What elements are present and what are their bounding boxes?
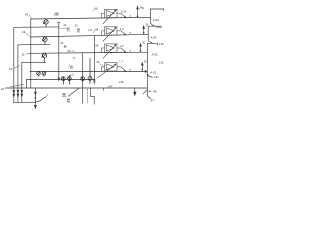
wire bottom-center vertical [82,88,84,104]
arrowhead U3 diag [114,44,116,46]
wire Q5 vertical [34,88,36,107]
arrowhead U3 output [124,51,126,53]
amplifier U1 [102,9,127,24]
wire row3 main [30,52,148,53]
svg-text:10: 10 [1,87,5,91]
output arrow row1 [137,6,139,17]
wire column x82.7 [82,53,84,88]
contact K4a under wire4 [37,72,41,77]
svg-text:RTL: RTL [67,31,71,33]
svg-text:67: 67 [151,99,155,103]
wire row4 lower left vertical [26,80,28,89]
svg-text:1-45: 1-45 [119,81,124,84]
label 14 + pointer [25,13,32,19]
svg-text:13: 13 [22,30,26,34]
label 11 + pointer [22,52,30,56]
wire row2 main [30,34,148,37]
label 90 RTL row1 [54,11,59,17]
svg-text:RTL: RTL [77,32,81,34]
arrowhead U2 diag [114,27,116,29]
label 90 row3 [68,50,76,53]
node stub below bus x103.5 [103,88,105,91]
wire row3 lower [22,61,46,63]
wire row1 hook below corner [150,17,154,25]
amplifier U2 [102,27,127,42]
wire bottom bus [6,87,148,89]
svg-text:1-53: 1-53 [159,43,164,46]
svg-text:1-24: 1-24 [121,11,126,14]
label 67 [150,98,154,103]
wire row1 main [31,17,151,19]
wire row1 lower left vertical [13,27,15,102]
wire stub x134.8 below bus [134,88,136,92]
arrowhead U2 output [124,33,126,35]
label 90 RTL bottom2 [67,98,72,104]
svg-text:RTL: RTL [56,15,60,17]
output arrow row3 [140,44,142,53]
svg-text:11: 11 [22,52,25,56]
svg-text:1-51: 1-51 [154,76,159,79]
svg-text:A-51: A-51 [150,71,156,75]
svg-text:1-47: 1-47 [108,85,113,88]
arrowhead U1 diag [114,10,116,12]
svg-text:A-52: A-52 [152,53,158,57]
svg-text:RTL: RTL [72,51,76,53]
transistor Q5 collector arc [36,97,45,102]
contact K3 under wire3 [42,53,47,62]
svg-text:RTL: RTL [70,68,74,70]
wire row3 lower left vertical [21,62,23,102]
svg-text:A-54: A-54 [153,18,159,22]
svg-text:1-54: 1-54 [156,26,161,29]
wire column x94.6 [94,36,96,85]
amplifier U4 [97,63,126,78]
svg-text:12: 12 [9,67,13,71]
wire column x58.8 [58,22,60,78]
svg-text:1-52: 1-52 [159,62,164,65]
transistor Q7 diagonal into bus [143,90,147,94]
node row3 right corner jog [147,44,157,53]
wire row4 lower [27,79,95,81]
label 90 row2 [59,27,70,33]
label 13 + pointer [22,30,30,36]
node tick top of column [58,21,60,23]
label -45 [148,89,157,93]
svg-text:RTL: RTL [93,82,97,84]
arrow column58 down [58,78,60,81]
label 90 row4 [68,65,73,70]
svg-text:-45: -45 [153,89,157,93]
wire bottom-center step [90,88,94,104]
node row2 right corner jog [148,26,161,34]
output arrow row4 [141,63,143,72]
wire left vertical bus [30,19,32,88]
wire row4 main [30,71,145,73]
amplifier U3 [102,44,127,59]
node Q5 dot [35,97,37,99]
label 12 + pointer [9,65,20,71]
transistor Q6 diagonal [68,88,79,96]
arrow v1 down double [13,90,15,93]
left bus input arrows [13,78,136,108]
label 90 RTL bottom [63,92,68,98]
wire row2 hook below corner [148,34,152,42]
output arrow row2 [143,26,145,35]
node row1 right corner jog [150,9,163,17]
label 10 + pointer [1,84,24,91]
arrowhead U4 output [124,70,126,72]
wire bottom collector line [13,101,35,103]
label 90RTL row4 bottom [93,79,97,84]
lamp I4 [88,58,92,84]
label 68 above box2 [93,29,99,33]
wire right vertical bus [146,52,148,94]
wire row4 hook below bus [147,74,152,77]
wire row1 lower [14,26,59,28]
label 68 above box4 [97,61,104,66]
wire row2 lower left vertical [17,45,19,103]
lamp I2 [67,75,71,84]
arrowhead U1 output [124,16,126,18]
contact K4b under wire4 [42,72,46,77]
svg-text:14: 14 [25,13,29,17]
arrow Q5 emitter down [34,105,36,108]
wire right bus bottom hook [147,94,150,98]
contact K2 under wire2 [42,37,47,44]
arrow Q5 base down [35,92,37,95]
lamp I3 [81,77,85,81]
lamp row on lower4: I1 [61,77,65,85]
node row4 arrowhead into right bus [145,71,147,73]
transistor Q5 collector tick [45,96,47,99]
label 68 above box1 [93,7,99,12]
svg-text:A-53: A-53 [151,35,157,39]
label 50 row1 arrow [139,6,144,10]
wire bottom-center dashed vertical [86,89,88,103]
label 90 row1b [77,28,81,34]
arrow v2 down double [17,90,19,93]
contact K1 under wire1 [43,20,48,27]
arrow x134.8 down fat [134,92,136,96]
wire row2 lower [18,43,50,46]
arrow v3 down double [21,90,23,93]
arrowhead U4 diag [114,64,116,66]
